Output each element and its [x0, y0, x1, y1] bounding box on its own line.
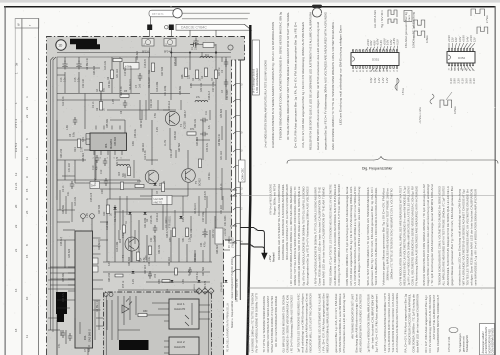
svg-text:1-921 Einschubdeckel: 1-921 Einschubdeckel — [256, 68, 259, 93]
LED symbol — [122, 305, 129, 313]
transistor T3 — [145, 170, 159, 184]
svg-text:(4k177): (4k177) — [154, 201, 163, 205]
cable hanger blob on top rule — [312, 5, 322, 8]
connector pad P2 — [169, 25, 174, 31]
svg-text:C ION 0g i RV B=i aV MODULAZIO: C ION 0g i RV B=i aV MODULAZIONE FM 300M… — [337, 184, 341, 286]
resistor top1 — [113, 58, 122, 61]
diode D7 — [153, 183, 156, 186]
D351 fan line + voltage label — [389, 46, 392, 50]
svg-text:C21: C21 — [67, 191, 70, 196]
junction dot — [215, 51, 217, 53]
svg-text:R72 470: R72 470 — [204, 280, 207, 290]
svg-text:1N4148: 1N4148 — [150, 215, 153, 224]
svg-text:R58 680: R58 680 — [114, 136, 117, 146]
svg-text:R33 680: R33 680 — [93, 65, 96, 75]
svg-text:BC413: BC413 — [199, 178, 202, 186]
wire — [95, 160, 97, 180]
diode D12 — [198, 280, 201, 282]
dot2 — [170, 52, 172, 54]
svg-text:ARE MEASURED WITH A GRUNDIG VO: ARE MEASURED WITH A GRUNDIG VOLTMETER — [359, 294, 363, 353]
wire — [74, 318, 76, 330]
svg-text:THE CALIBRATION MUST BE CARRIE: THE CALIBRATION MUST BE CARRIED OUT — [436, 295, 440, 353]
diode D2 — [143, 212, 146, 215]
cap C54 — [188, 267, 192, 275]
wire — [134, 230, 136, 244]
box 4k177 — [152, 196, 172, 205]
tall IC left pins — [68, 267, 75, 291]
wire — [57, 299, 75, 301]
svg-text:FM-Abst genauent Ber 1g: FM-Abst genauent Ber 1g — [404, 12, 408, 48]
svg-text:R31 220k: R31 220k — [164, 85, 167, 96]
svg-text:4.0Vss: 4.0Vss — [454, 106, 457, 114]
svg-text:R47 1M: R47 1M — [212, 230, 215, 238]
svg-text:Netzteil: Netzteil — [271, 252, 275, 262]
svg-text:R20: R20 — [124, 173, 127, 178]
connector pin — [233, 223, 240, 226]
resistor R50 — [172, 228, 175, 237]
tall IC right pins — [93, 238, 101, 310]
svg-text:C31 330n: C31 330n — [224, 215, 227, 226]
connector pin — [233, 269, 240, 272]
wire — [146, 281, 210, 283]
svg-text:470u: 470u — [204, 241, 207, 247]
coil box Dr2 — [124, 63, 140, 70]
svg-text:C52: C52 — [155, 273, 157, 278]
svg-text:3.4V: 3.4V — [82, 137, 85, 142]
svg-text:Dig. Frequenzzähler: Dig. Frequenzzähler — [362, 167, 393, 171]
page left border — [5, 6, 6, 355]
zener D5 — [113, 207, 116, 210]
svg-text:2.2u: 2.2u — [77, 77, 80, 82]
svg-text:angenahert Bei 1g i FE D=i FV: angenahert Bei 1g i FE D=i FV Abstimmspg… — [324, 11, 328, 150]
svg-text:D4 AA113: D4 AA113 — [129, 79, 132, 90]
svg-text:LED am Einchung mull anliebdin: LED am Einchung mull anliebdingt nur OM-… — [339, 25, 343, 125]
D352 fan line + voltage label — [467, 43, 471, 49]
diode D13 — [225, 280, 228, 282]
wire to arrow upper — [240, 228, 264, 252]
svg-text:BC238: BC238 — [184, 121, 187, 129]
svg-text:R63 150: R63 150 — [60, 148, 63, 158]
svg-text:~0.7Vss-1.1Vss: ~0.7Vss-1.1Vss — [419, 106, 422, 124]
svg-text:0.2V: 0.2V — [182, 217, 185, 222]
D351 fan line + voltage label — [367, 47, 369, 50]
svg-text:serie NW MODELE A 1g i RV U=i: serie NW MODELE A 1g i RV U=i aV MODULAT… — [474, 188, 478, 285]
divider rule — [247, 287, 495, 289]
svg-text:20: 20 — [14, 204, 18, 208]
svg-text:6.8u: 6.8u — [73, 132, 76, 137]
svg-text:i TC 1pF Einchung der AM Absti: i TC 1pF Einchung der AM Abstimmanzeige … — [430, 184, 434, 286]
svg-text:0.4V: 0.4V — [369, 77, 373, 83]
svg-text:R31 220k: R31 220k — [144, 217, 147, 228]
svg-text:R75 1k: R75 1k — [123, 280, 125, 288]
wire — [126, 196, 128, 215]
svg-text:R52 12k: R52 12k — [194, 118, 197, 128]
wire — [100, 221, 108, 223]
svg-text:R13 12k: R13 12k — [104, 60, 107, 70]
svg-text:D4 AA113: D4 AA113 — [194, 203, 197, 214]
coil Dr1 — [200, 56, 213, 58]
svg-text:C23 2u2: C23 2u2 — [168, 100, 171, 110]
D351 fan line + voltage label — [377, 47, 378, 50]
svg-text:R58 680: R58 680 — [128, 256, 131, 266]
svg-text:1.8V: 1.8V — [182, 279, 185, 284]
wire — [130, 66, 132, 93]
IC D352 DIP16 — [447, 52, 475, 64]
svg-text:Gerat MW 96% 60% Anst am Regen: Gerat MW 96% 60% Anst am Regen 500kc mit… — [316, 22, 320, 150]
svg-text:C25 1n5: C25 1n5 — [174, 56, 177, 66]
svg-text:PE MA DELLA TARATURA FM PRIMA: PE MA DELLA TARATURA FM PRIMA DELLA — [227, 303, 230, 352]
svg-text:R26 8k2: R26 8k2 — [136, 50, 139, 60]
svg-text:e a 5 2: e a 5 2 — [14, 142, 18, 152]
svg-text:11: 11 — [25, 335, 29, 338]
connector pin — [233, 240, 240, 243]
D351 fan line + voltage label — [386, 68, 388, 71]
svg-text:C22 10n: C22 10n — [170, 148, 173, 158]
svg-text:C12: C12 — [100, 169, 103, 174]
cap C7 — [138, 73, 143, 81]
svg-text:UAA170: UAA170 — [174, 345, 186, 349]
wire — [141, 110, 143, 120]
wire — [110, 119, 125, 121]
D351 fan line + voltage label — [379, 68, 380, 71]
svg-text:R67 5k6: R67 5k6 — [202, 266, 205, 276]
black display bar — [119, 340, 149, 350]
wire — [96, 317, 103, 319]
svg-text:1.2V: 1.2V — [381, 77, 385, 83]
wire — [174, 210, 176, 228]
resistor R24 — [136, 252, 139, 261]
D351 fan line + voltage label — [396, 46, 399, 50]
black logo block — [70, 39, 100, 49]
wire — [57, 307, 70, 309]
svg-text:R67 5k6: R67 5k6 — [178, 142, 181, 152]
cap C30 — [104, 178, 109, 186]
svg-text:0.1V: 0.1V — [472, 78, 476, 84]
resistor R61 — [135, 184, 144, 187]
diode D1 — [128, 212, 131, 215]
D351 fan line + voltage label — [393, 46, 396, 50]
svg-text:5.9V: 5.9V — [453, 78, 457, 84]
wire — [96, 325, 103, 327]
svg-text:C41 22n: C41 22n — [68, 162, 71, 172]
pad P2 ring — [165, 25, 169, 29]
D352 fan line + voltage label — [451, 43, 454, 49]
connector pin — [233, 83, 240, 86]
wire — [98, 300, 100, 330]
wire — [48, 317, 57, 319]
svg-text:R27 330: R27 330 — [98, 204, 101, 214]
svg-text:3.4V: 3.4V — [108, 261, 111, 266]
svg-text:C19 68n: C19 68n — [124, 66, 127, 76]
diode D11 — [171, 280, 174, 282]
connector pin — [233, 187, 240, 190]
svg-text:R62 2k2: R62 2k2 — [168, 256, 171, 266]
wire — [65, 196, 67, 214]
svg-text:C19 68n: C19 68n — [106, 220, 109, 230]
svg-text:R33 680: R33 680 — [196, 136, 199, 146]
svg-text:D352: D352 — [458, 56, 466, 60]
wire — [57, 209, 75, 211]
svg-text:0.1V: 0.1V — [449, 78, 453, 84]
wire — [118, 289, 200, 291]
black bar module — [56, 292, 67, 322]
wire — [198, 196, 200, 216]
rail y212 — [115, 211, 231, 213]
resistor R11 — [151, 63, 154, 72]
coil Dr3 — [117, 164, 130, 166]
D351 fan line + voltage label — [375, 68, 377, 71]
svg-text:Dr3: Dr3 — [118, 171, 121, 176]
svg-text:A GRUNDIG VOLTMETER B+W SERIES: A GRUNDIG VOLTMETER B+W SERIES AGAINST C… — [271, 22, 275, 148]
svg-text:R11: R11 — [148, 69, 151, 74]
cap top mid — [191, 42, 199, 47]
svg-text:ALL IMPULSES: ALL IMPULSES — [373, 10, 377, 28]
pin table vertical line B — [37, 19, 40, 355]
wire — [206, 196, 208, 208]
svg-text:7.5V: 7.5V — [154, 113, 157, 118]
wire — [214, 216, 216, 228]
svg-text:0.5Vss: 0.5Vss — [403, 87, 405, 95]
board outline bevel — [244, 24, 251, 30]
wire — [146, 159, 158, 161]
Anz1 inner marks — [185, 303, 192, 326]
PART box — [404, 11, 412, 22]
connector pin — [233, 193, 240, 196]
pad wires down — [150, 30, 216, 53]
pin table header box — [15, 19, 39, 29]
cap C10 — [95, 155, 100, 163]
resistor R30 — [148, 246, 151, 255]
resistor R23 — [161, 183, 164, 192]
svg-text:R72 470: R72 470 — [116, 156, 119, 166]
svg-text:C44 47u: C44 47u — [62, 292, 65, 302]
D352 fan line + voltage label — [470, 43, 475, 49]
wire tab to pad — [150, 17, 152, 25]
svg-text:+5.9V: +5.9V — [462, 35, 466, 42]
svg-text:R63 150: R63 150 — [108, 272, 111, 282]
svg-text:0.4V: 0.4V — [465, 36, 469, 42]
wire — [57, 221, 70, 223]
svg-text:C44 47u: C44 47u — [206, 142, 209, 152]
cap C71 — [61, 330, 66, 338]
resistor R78 — [175, 268, 178, 275]
D352 fan line + voltage label — [470, 66, 474, 71]
svg-text:i FA, D=i GY, FM Abst angenahe: i FA, D=i GY, FM Abst angenahert Bei 1g … — [301, 22, 305, 148]
transistor T1b — [165, 111, 179, 125]
svg-text:SAS 560 S: SAS 560 S — [88, 329, 92, 342]
D351 fan line + voltage label — [382, 68, 385, 71]
cap C8 — [123, 100, 128, 108]
svg-text:R8 56k 1%: R8 56k 1% — [96, 299, 99, 312]
svg-text:600: 600 — [103, 87, 106, 92]
sub wires — [107, 296, 210, 340]
svg-text:R16 100k: R16 100k — [156, 81, 159, 92]
svg-text:549 O: 549 O — [88, 345, 91, 352]
svg-text:R38 56k: R38 56k — [179, 85, 182, 95]
wire — [84, 149, 90, 151]
svg-text:Regen 500kc mit R734: Regen 500kc mit R734 — [273, 184, 277, 215]
svg-text:R61: R61 — [137, 180, 142, 183]
svg-text:gegen Masse gemessen Bei Tg i: gegen Masse gemessen Bei Tg i SV D=i GV,… — [450, 186, 454, 285]
wire — [221, 168, 223, 200]
filter box top — [203, 43, 214, 48]
svg-text:R80: R80 — [143, 310, 148, 313]
svg-text:+5.9V: +5.9V — [447, 35, 451, 42]
svg-text:C23 2u2: C23 2u2 — [156, 212, 159, 222]
elco C1 — [193, 38, 198, 47]
svg-text:SV 6100 - 616 00: SV 6100 - 616 00 — [234, 278, 238, 302]
svg-text:12V: 12V — [454, 37, 458, 42]
svg-text:C18 47n: C18 47n — [204, 190, 207, 200]
svg-text:2 6 1 2: 2 6 1 2 — [14, 118, 18, 128]
svg-text:C38 10u: C38 10u — [134, 128, 137, 138]
Einschub label box — [252, 40, 259, 95]
wire — [209, 110, 211, 120]
svg-text:R62 2k2: R62 2k2 — [142, 142, 145, 152]
connector strip lines — [236, 60, 241, 300]
svg-text:Bedien u. Frequenzzähler - Mod: Bedien u. Frequenzzähler - Modul FREQUEN… — [231, 256, 234, 328]
svg-text:3è: 3è — [15, 62, 19, 66]
oval note — [449, 327, 458, 332]
svg-text:4.2V: 4.2V — [156, 127, 159, 132]
svg-text:DADCJE CYB4C: DADCJE CYB4C — [181, 26, 207, 30]
D352 fan line + voltage label — [448, 43, 450, 49]
D352 fan line + voltage label — [451, 66, 452, 71]
svg-text:R734 einstecken des LED am Ein: R734 einstecken des LED am Einchung mull — [342, 293, 346, 352]
svg-text:RV Un=i GV FM MODULATION 300MH: RV Un=i GV FM MODULATION 300MHz — [274, 295, 278, 346]
svg-text:C30: C30 — [101, 189, 104, 194]
bottom pads — [108, 346, 112, 350]
D351 fan line + voltage label — [380, 46, 381, 49]
connector pin — [233, 115, 240, 118]
svg-text:0.2V: 0.2V — [190, 83, 193, 88]
D351 fan line + voltage label — [387, 46, 388, 49]
wire — [145, 100, 147, 120]
resistor R29 — [123, 225, 126, 233]
svg-text:1n5: 1n5 — [139, 83, 142, 88]
connector pin — [233, 165, 240, 168]
svg-text:Ua=1V8: Ua=1V8 — [154, 197, 164, 201]
paper speckle — [48, 40, 232, 355]
svg-text:18: 18 — [14, 328, 18, 332]
D352 fan line + voltage label — [467, 66, 471, 71]
resistor R4 — [99, 83, 102, 92]
waveform sq B — [414, 20, 425, 28]
svg-text:R36 47: R36 47 — [184, 110, 187, 118]
cap C21 — [70, 181, 75, 189]
svg-text:R41 1k2: R41 1k2 — [116, 68, 119, 78]
sub-board inner frame — [107, 292, 209, 355]
wire — [154, 236, 156, 262]
svg-text:R42 18k: R42 18k — [190, 228, 193, 238]
top tab label — [149, 10, 176, 17]
cap C4 — [224, 79, 229, 87]
waveform sq D — [440, 100, 452, 108]
cap C11 — [200, 118, 208, 123]
svg-text:PA21: PA21 — [408, 15, 411, 21]
transistor module T2 — [164, 39, 176, 47]
scan edge strip — [0, 0, 500, 3]
svg-text:16: 16 — [14, 288, 18, 292]
connector pin — [233, 255, 240, 258]
wire — [201, 52, 203, 57]
svg-text:D6? 30 %: D6? 30 % — [152, 12, 164, 16]
svg-text:Dr1: Dr1 — [205, 54, 210, 57]
wire — [221, 126, 223, 140]
wire — [190, 216, 192, 230]
svg-text:R38 56k: R38 56k — [62, 204, 65, 214]
svg-text:D6 AA119: D6 AA119 — [148, 77, 151, 88]
cap C6 — [73, 117, 78, 125]
page right border — [495, 6, 496, 355]
wire to arrow lower — [240, 244, 264, 251]
transistor module T1 — [142, 39, 154, 47]
svg-text:12V: 12V — [473, 37, 477, 42]
svg-text:C38 10u: C38 10u — [148, 256, 151, 266]
svg-text:0.6V: 0.6V — [132, 141, 135, 146]
transistor T4 — [125, 237, 139, 251]
svg-text:0.5V: 0.5V — [396, 39, 400, 45]
D351 fan line + voltage label — [371, 68, 373, 71]
cable hanger ring — [312, 8, 321, 17]
Anz2 pins — [164, 341, 169, 353]
wire bus horizontal rails — [57, 67, 100, 69]
svg-text:R50: R50 — [169, 237, 172, 242]
top outline wire — [182, 13, 250, 19]
cap C32 — [153, 225, 158, 233]
svg-text:1D: 1D — [58, 44, 63, 48]
svg-text:11.4V: 11.4V — [164, 140, 167, 146]
wire — [175, 150, 177, 158]
svg-text:R57 2k7: R57 2k7 — [140, 118, 143, 128]
svg-text:C28 4u7: C28 4u7 — [208, 90, 211, 100]
D352 fan line + voltage label — [461, 66, 463, 71]
svg-text:C36 33n: C36 33n — [194, 252, 197, 262]
svg-text:27u: 27u — [196, 96, 201, 99]
svg-text:FV Abstimmspg 30MHz AUS VOLTAG: FV Abstimmspg 30MHz AUS VOLTAGES ARE MEA… — [415, 185, 419, 285]
coil box Dr4 — [90, 182, 100, 189]
wire — [119, 63, 121, 93]
svg-text:U=i aV MODULATION 300MHz AMPLI: U=i aV MODULATION 300MHz AMPLIFICATEUR L… — [264, 60, 268, 148]
svg-text:TENSIONI SONO MISURATE CON IL: TENSIONI SONO MISURATE CON IL VOLTMETRO … — [279, 12, 283, 140]
elco C15 — [76, 61, 81, 70]
D352 fan line + voltage label — [461, 43, 464, 49]
resistor R20 — [127, 167, 130, 176]
box BU2 — [215, 228, 223, 244]
svg-text:UAA170: UAA170 — [174, 307, 186, 311]
D351 fan line + voltage label — [373, 47, 374, 50]
svg-text:2.7k: 2.7k — [81, 147, 84, 152]
svg-text:R12 4.7k: R12 4.7k — [62, 96, 65, 106]
wire — [221, 57, 223, 62]
svg-text:C22 10n: C22 10n — [150, 98, 153, 108]
inner board frame — [57, 57, 231, 355]
svg-text:11.4V: 11.4V — [188, 270, 191, 276]
svg-text:REGLER R734 DE SORTE QUE LE LE: REGLER R734 DE SORTE QUE LE LED DE LA DE… — [309, 12, 313, 150]
svg-text:C11: C11 — [205, 110, 208, 115]
svg-text:C41 22n: C41 22n — [220, 204, 223, 214]
svg-text:47u: 47u — [208, 124, 211, 129]
svg-text:C2 1n: C2 1n — [220, 183, 223, 190]
sub-board border — [104, 292, 212, 355]
svg-text:+11.4V: +11.4V — [94, 178, 97, 186]
svg-text:D351: D351 — [372, 58, 380, 62]
wire — [57, 74, 65, 76]
svg-text:i FE D=i FV Abstimmspg 30MHz A: i FE D=i FV Abstimmspg 30MHz AUS VOLTAGE… — [289, 295, 293, 352]
connector pad P1 — [147, 25, 152, 31]
diode D3 — [179, 216, 182, 219]
svg-text:R66 3k3: R66 3k3 — [82, 152, 85, 162]
